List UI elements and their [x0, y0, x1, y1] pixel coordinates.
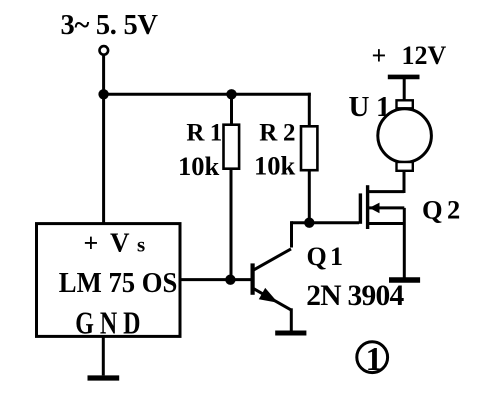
svg-text:10k: 10k	[178, 151, 220, 181]
ground LM75	[88, 375, 120, 380]
svg-text:LM 75 OS: LM 75 OS	[59, 267, 178, 299]
wire LM75 ground pin	[102, 336, 105, 375]
svg-text:Q2: Q2	[422, 195, 460, 225]
wire motor to Q2 drain	[403, 171, 406, 193]
ground Q1 emitter	[275, 331, 306, 336]
junction dot R2 bottom collector node	[304, 218, 314, 228]
junction dot base node	[225, 275, 235, 285]
resistor R2	[301, 93, 317, 224]
resistor R1	[224, 94, 240, 279]
motor U1	[378, 100, 432, 171]
wire supply vertical	[102, 55, 105, 224]
terminal supply input	[100, 46, 109, 55]
svg-text:10k: 10k	[254, 151, 296, 181]
svg-text:+12V: +12V	[372, 41, 447, 70]
ground Q2 source	[389, 277, 420, 282]
svg-text:2N 3904: 2N 3904	[306, 280, 404, 312]
transistor Q1	[253, 249, 292, 332]
transistor Q2 MOSFET	[360, 185, 404, 229]
wire collector node to Q2 gate	[292, 221, 360, 224]
wire top horizontal bus	[104, 93, 311, 96]
wire Q1 collector vertical	[290, 221, 293, 247]
IC LM75OS	[37, 224, 181, 337]
power rail +12V	[388, 75, 420, 80]
wire +12V to motor	[403, 78, 406, 100]
junction dot supply node	[98, 89, 108, 99]
wire OS output to Q1 base	[180, 278, 251, 281]
svg-text:1: 1	[366, 341, 383, 378]
svg-text:Q1: Q1	[307, 242, 344, 271]
junction dot R1 top	[226, 89, 236, 99]
svg-text:3~ 5. 5V: 3~ 5. 5V	[61, 10, 159, 41]
svg-text:G N D: G N D	[75, 306, 140, 341]
figure number 1	[357, 341, 388, 378]
wire Q2 source to ground	[403, 208, 406, 278]
svg-text:R1: R1	[186, 119, 222, 146]
